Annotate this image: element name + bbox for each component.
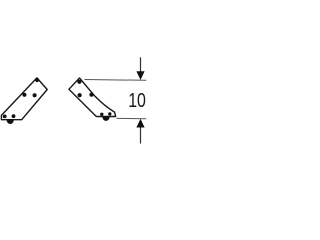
- left rail bottom bump: [7, 120, 14, 124]
- right rail end hole 1: [100, 113, 103, 116]
- top arrow stem: [140, 57, 142, 72]
- svg-text:10: 10: [128, 88, 146, 111]
- right rail outline: [69, 78, 116, 117]
- left rail middle hole 2: [33, 93, 37, 97]
- bottom arrow stem: [140, 127, 142, 144]
- right rail bottom bump: [102, 117, 109, 121]
- top arrowhead: [136, 71, 144, 80]
- left rail outline: [1, 78, 47, 120]
- right rail middle hole 2: [89, 93, 93, 97]
- bottom arrowhead: [136, 119, 144, 128]
- left rail middle hole 1: [22, 93, 26, 97]
- right rail middle hole 1: [78, 93, 82, 97]
- right rail end hole 2: [108, 112, 111, 115]
- left rail top hole: [35, 78, 39, 82]
- right rail top hole: [77, 80, 81, 84]
- top extension line: [84, 79, 146, 82]
- bottom extension line: [117, 117, 147, 119]
- dimension text 10: [128, 88, 146, 111]
- left rail end hole 2: [12, 114, 16, 118]
- left rail end hole 1: [3, 115, 7, 119]
